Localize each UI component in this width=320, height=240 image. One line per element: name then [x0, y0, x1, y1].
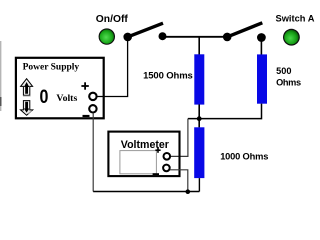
- svg-text:1500 Ohms: 1500 Ohms: [143, 71, 193, 82]
- LED D2 (Switch A indicator): [283, 29, 300, 46]
- wire: T-drop to R1: [198, 37, 200, 55]
- wire: voltmeter - to bottom bus: [170, 170, 188, 192]
- svg-text:On/Off: On/Off: [96, 14, 129, 25]
- up arrow button: [21, 79, 33, 96]
- junction dot (voltmeter - on bottom bus): [186, 189, 191, 194]
- resistor R1 1500 ohms: [194, 54, 204, 104]
- switch S1 contact dot: [159, 32, 167, 40]
- wire: top bus S1 contact to S2 pivot: [163, 36, 228, 38]
- plus sign (voltmeter): [155, 148, 160, 153]
- minus sign (voltmeter): [153, 173, 159, 175]
- wire: node B to R3 top: [198, 119, 200, 128]
- wire: PS - terminal riser: [92, 113, 94, 192]
- switch S1 pivot dot: [123, 33, 132, 42]
- voltmeter display: [120, 151, 156, 174]
- wire: node B bus to R2 riser: [188, 104, 262, 119]
- LED D1 (On/Off indicator): [99, 28, 115, 44]
- resistor R3 1000 ohms: [194, 127, 204, 178]
- plus sign (power supply): [81, 82, 88, 89]
- wire: node B down to voltmeter +: [171, 119, 188, 157]
- switch S2 contact dot: [257, 33, 266, 42]
- down arrow button: [21, 101, 33, 116]
- voltmeter box: [108, 132, 179, 177]
- terminal - (voltmeter): [163, 165, 170, 172]
- resistor R2 500 ohms: [257, 54, 267, 103]
- terminal - (power supply): [89, 105, 96, 112]
- svg-text:Switch A: Switch A: [276, 14, 315, 24]
- svg-text:0: 0: [40, 86, 49, 108]
- wire: R1 bottom to node B junction: [198, 105, 200, 119]
- svg-text:500: 500: [276, 66, 291, 76]
- terminal + (power supply): [89, 93, 96, 100]
- svg-text:Power Supply: Power Supply: [23, 62, 80, 72]
- junction node B dot: [197, 116, 202, 121]
- wire: S2 contact down to R2: [260, 38, 262, 55]
- svg-text:Ohms: Ohms: [276, 78, 301, 88]
- wire: PS + terminal to switch S1 pivot: [97, 40, 128, 97]
- terminal + (voltmeter): [164, 153, 171, 160]
- label 500 Ohms: [276, 66, 301, 87]
- minus sign (power supply): [83, 115, 90, 117]
- power supply box: [16, 58, 104, 119]
- svg-text:Voltmeter: Voltmeter: [121, 139, 169, 151]
- switch S2 lever: [227, 23, 262, 37]
- wire: bottom bus: [93, 191, 199, 193]
- left edge artifact: [0, 41, 2, 111]
- svg-text:Volts: Volts: [56, 93, 77, 104]
- wire: R3 bottom riser: [198, 178, 200, 191]
- svg-text:1000 Ohms: 1000 Ohms: [220, 152, 268, 162]
- switch S1 lever: [128, 23, 163, 37]
- switch S2 pivot dot: [223, 33, 232, 42]
